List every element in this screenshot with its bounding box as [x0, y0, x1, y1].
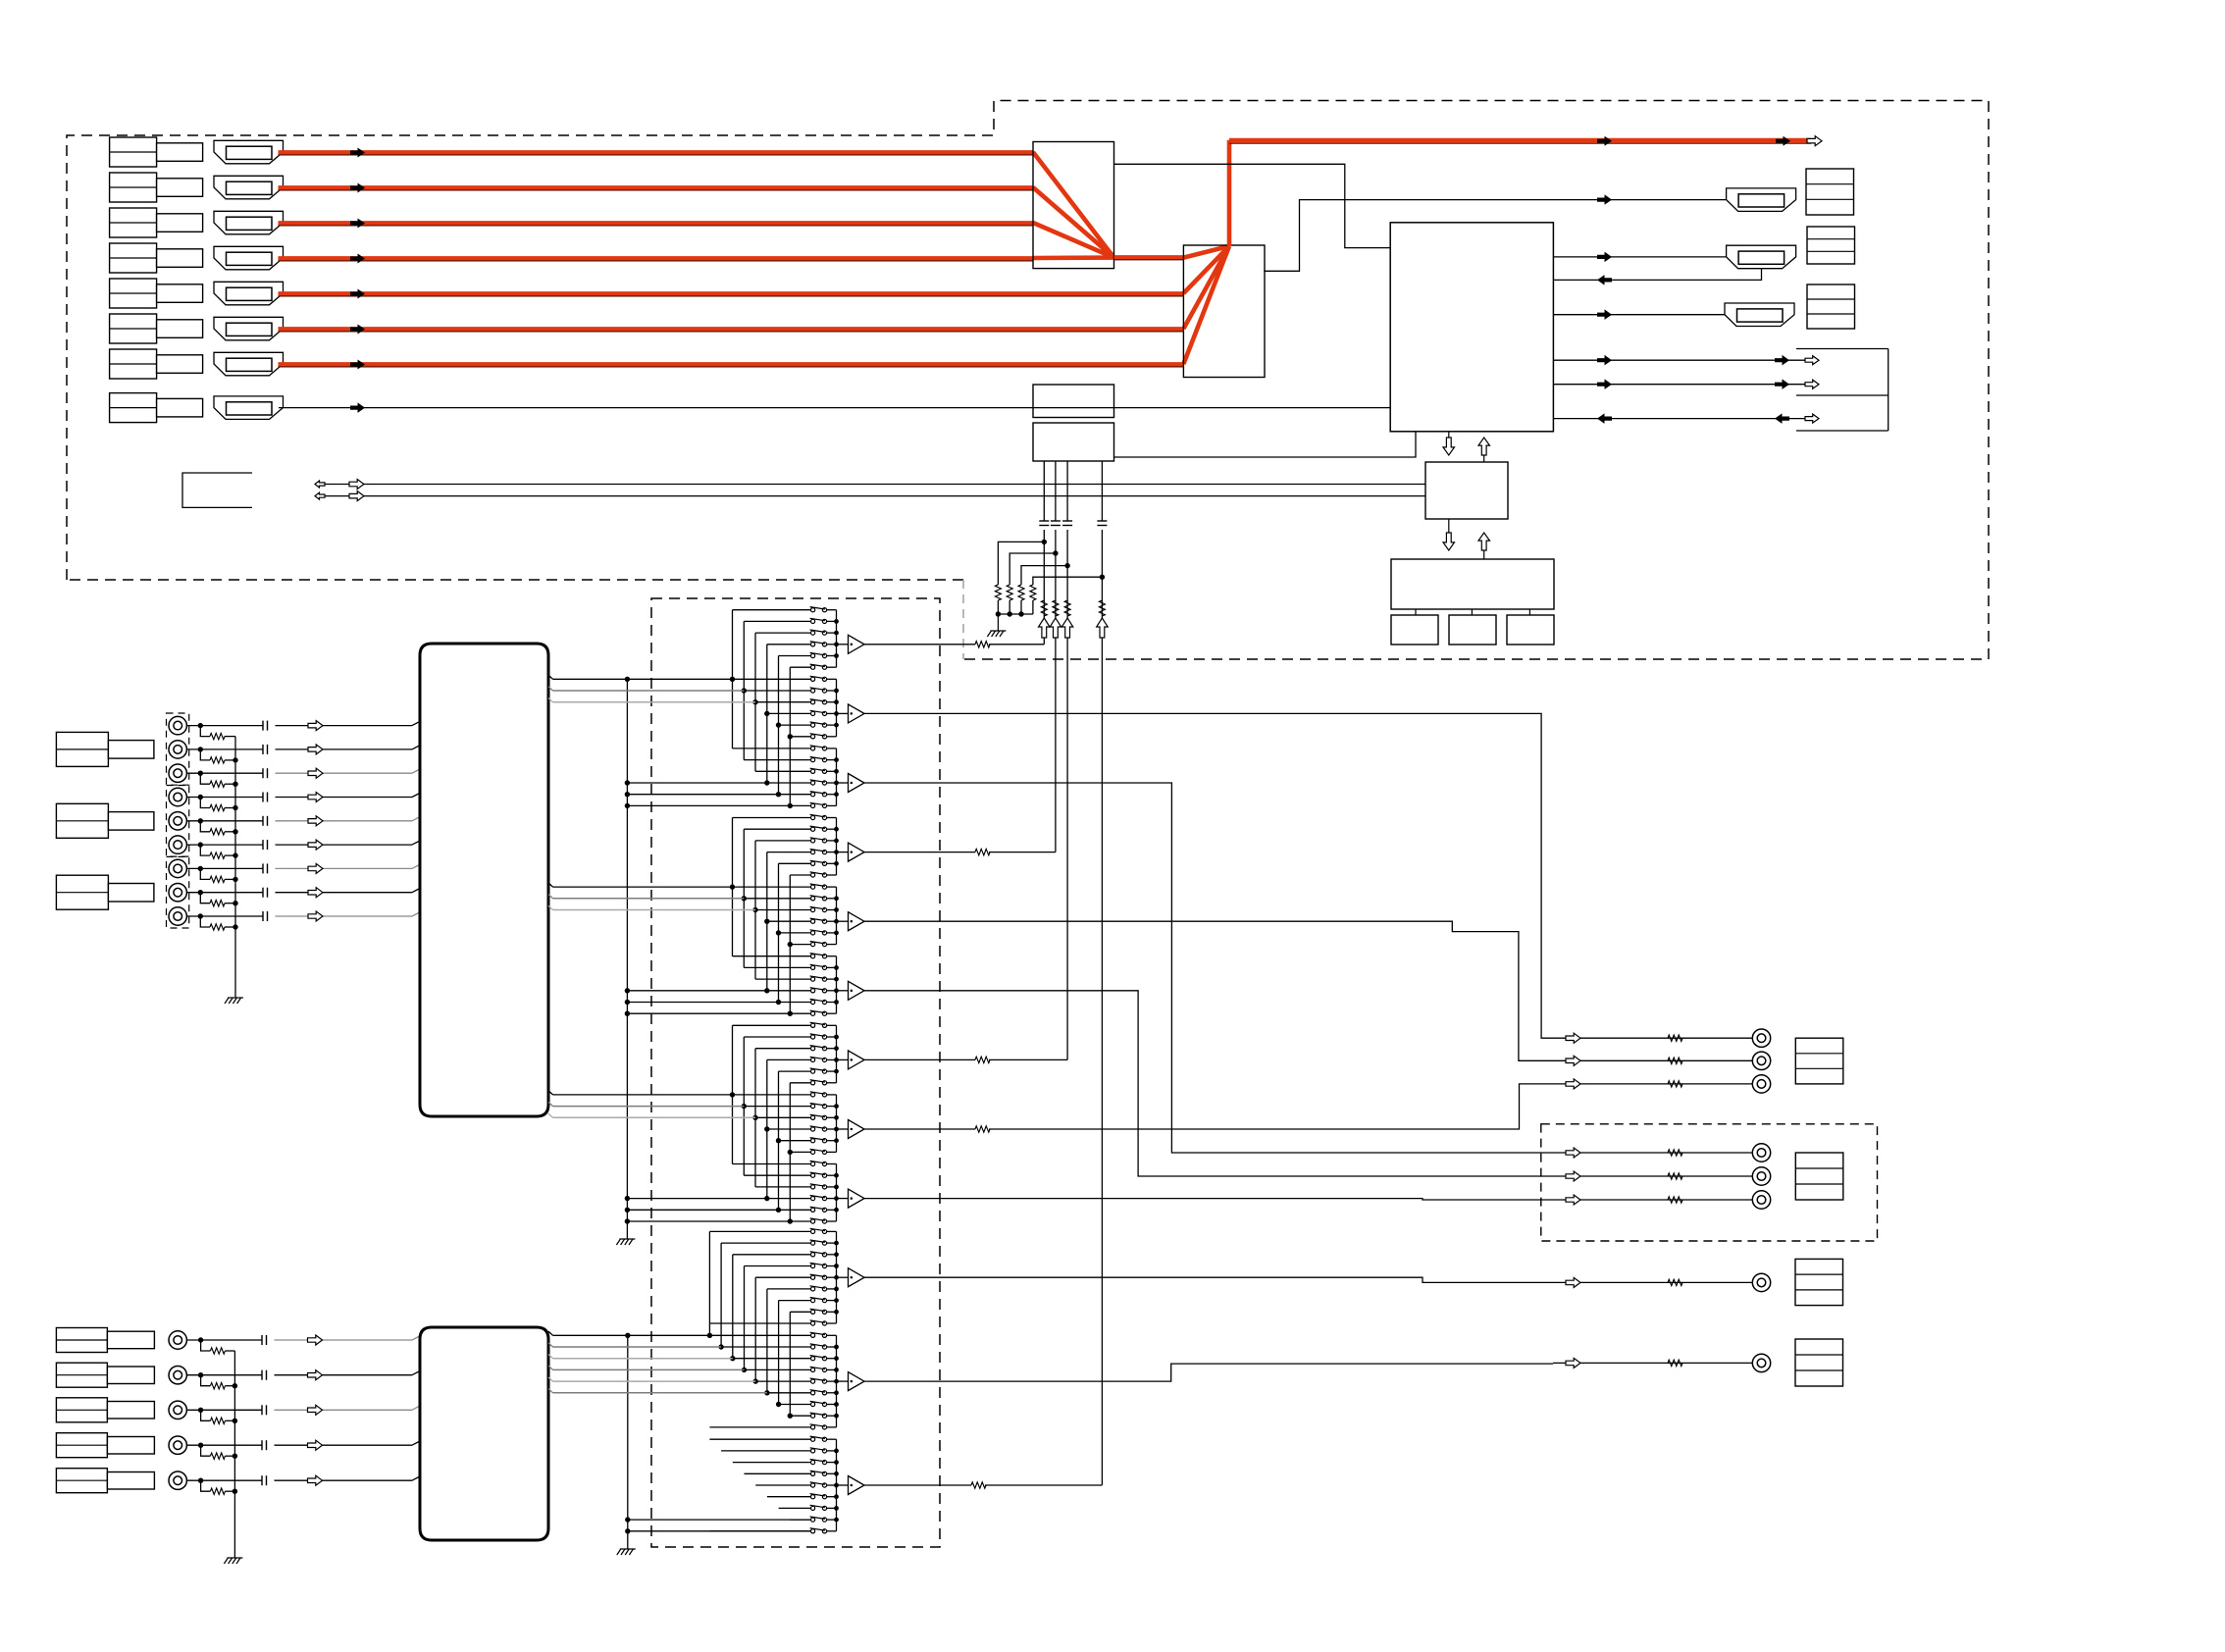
wire red main output riser — [1227, 140, 1232, 246]
capacitor C1 — [1039, 520, 1049, 522]
HDMI switch U1 — [1033, 142, 1114, 269]
wire b4s3 row9 out — [827, 1530, 837, 1532]
switch b1s3 row5 — [811, 793, 815, 797]
wire b2s1 row2 feed — [744, 828, 810, 830]
wire b2s3 row3 feed — [755, 978, 811, 980]
switch b2s3 row3 — [811, 977, 815, 981]
wire b4s2 row2 feed — [721, 1346, 810, 1348]
HDMI input 1 label box — [110, 137, 157, 167]
ground divider network — [997, 614, 999, 631]
switch b3s1 row5 — [811, 1069, 815, 1073]
wire matrix b3 column 1 — [732, 1025, 734, 1163]
wire b4s1 row6 out — [827, 1288, 837, 1290]
wire matrix b3 column 6 — [789, 1083, 791, 1221]
HDMI output 2 connector — [1727, 245, 1796, 269]
wire b4s3 row4 feed — [745, 1472, 811, 1474]
dashed enclosure HDMI input/output section — [67, 101, 1989, 660]
wire matrix left rail B — [627, 1335, 629, 1549]
wire b4s3 row4 out — [827, 1472, 837, 1474]
wire U3 out to HDMI out 2 — [1553, 256, 1726, 258]
wire digital audio line 4 — [1101, 461, 1103, 521]
switch b3s3 row3 — [811, 1185, 815, 1189]
wire b4s3 row5 out — [827, 1484, 837, 1486]
wire b2s3 row5 out — [827, 1002, 837, 1004]
wire b4s1 row9 feed — [709, 1322, 810, 1324]
switch b3s2 row2 — [811, 1105, 815, 1109]
HDMI input 7 connector — [214, 352, 284, 376]
op-amp buffer b1s1 — [837, 644, 849, 645]
wire b2s3 row4 out — [827, 990, 837, 992]
wire b3s3 collector — [836, 1164, 838, 1222]
switch b3s3 row5 — [811, 1208, 815, 1212]
wire b1s1 row1 feed — [733, 609, 811, 611]
HDMI input 3 label box — [110, 208, 157, 237]
wire divider foot 3 — [1020, 600, 1022, 614]
wire b3s2 row4 out — [827, 1128, 837, 1130]
switch b4s2 row1 — [811, 1333, 815, 1337]
wire bus out b1 line1 — [548, 675, 553, 679]
HDMI transmitter IC U3 — [1390, 223, 1553, 432]
switch b2s1 row6 — [811, 873, 815, 877]
wire b2s1 row5 out — [827, 862, 837, 864]
wire b3s1 row2 out — [827, 1036, 837, 1038]
resistor R7 series — [1064, 600, 1070, 616]
resistor R3 pulldown — [1018, 585, 1024, 600]
switch b1s1 row4 — [811, 643, 815, 646]
RCA input jack J3 — [169, 764, 186, 782]
wire matrix b2 column 4 — [766, 852, 768, 991]
wire RCA J14 shunt — [201, 1480, 211, 1491]
RCA output zone2 out R — [1752, 1167, 1770, 1185]
switch b2s3 row1 — [811, 955, 815, 958]
wire HDMI out 2 return — [1553, 269, 1761, 281]
switch b4s2 row9 — [811, 1425, 815, 1429]
open box front panel connector — [182, 473, 252, 507]
wire RCA J8 shunt — [200, 893, 210, 903]
switch b3s1 row4 — [811, 1058, 815, 1061]
wire b2s1 row6 out — [827, 874, 837, 876]
arrow RCA J14 — [308, 1475, 323, 1485]
wire lower bus out line2 — [548, 1343, 553, 1347]
switch b1s3 row3 — [811, 769, 815, 773]
wire b1s3 row4 feed — [767, 782, 811, 784]
HDMI switch U2 input slants (red) — [1183, 246, 1229, 258]
wire b3s2 collector — [836, 1095, 838, 1153]
wire matrix b1 column 1 — [732, 610, 734, 749]
wire b4s2 row4 feed — [745, 1368, 811, 1370]
main out label box — [1795, 1038, 1843, 1084]
wire b1s2 row4 feed — [767, 712, 811, 714]
wire aux ground rail — [233, 1351, 235, 1558]
wire bus out b3 line2 — [548, 1102, 553, 1106]
wire U3 aux in — [1553, 418, 1805, 420]
wire b3s2 row1 feed — [733, 1094, 811, 1096]
arrow RCA J5 — [308, 816, 323, 826]
arrow digital line 1 — [1039, 618, 1051, 638]
wire b4s3 row8 out — [827, 1519, 837, 1521]
wire HDMI input 3 TMDS (red) — [279, 221, 1034, 226]
wire lower bus out line4 — [548, 1366, 553, 1369]
switch b4s3 row2 — [811, 1449, 815, 1453]
wire b3s1 collector — [836, 1025, 838, 1083]
switch b3s2 row5 — [811, 1139, 815, 1143]
wire b3s2 row2 out — [827, 1106, 837, 1108]
wire b2s3 row1 feed — [733, 955, 811, 957]
op-amp buffer b3s1 — [837, 1058, 849, 1060]
HDMI switch U2 — [1183, 245, 1265, 378]
wire b2s1 row1 feed — [733, 817, 811, 819]
aux input 2 label box — [56, 1363, 107, 1387]
grey dashed link — [962, 580, 964, 659]
wire b4s2 row7 out — [827, 1404, 837, 1406]
arrow RCA J8 — [308, 888, 323, 898]
wire box B to U3 — [1114, 432, 1417, 457]
wire tri12 to digital line4 — [864, 1484, 971, 1486]
HDMI output 3 connector — [1725, 303, 1794, 327]
wire b1s2 row3 feed — [755, 701, 811, 703]
input selector bus upper — [420, 644, 548, 1116]
wire matrix b4 column 6 — [766, 1289, 768, 1393]
HDMI input 8 connector — [214, 396, 284, 420]
RCA aux jack J11 — [169, 1367, 186, 1384]
wire b4s1 row1 feed — [709, 1230, 810, 1232]
wire b1s3 row6 feed — [790, 804, 810, 806]
HDMI input 4 connector — [214, 246, 284, 269]
wire rail A branch b2 r5 — [627, 1002, 778, 1004]
wire tri6 to zone2-2 — [864, 991, 1553, 1176]
box B SPDIF interface — [1033, 423, 1114, 461]
dashed box RCA group 1 — [167, 713, 189, 785]
op-amp buffer b1s2 — [837, 712, 849, 714]
wire matrix b1 column 4 — [766, 645, 768, 783]
wire tri7 to digital line3 — [864, 1058, 975, 1060]
switch b2s1 row4 — [811, 851, 815, 854]
wire b4s2 row9 out — [827, 1426, 837, 1428]
wire b2s1 row3 feed — [755, 840, 811, 842]
wire RCA J12 shunt — [201, 1410, 211, 1420]
wire rail A branch b1 r5 — [627, 794, 778, 796]
switch b2s1 row5 — [811, 861, 815, 865]
wire divider foot 1 — [997, 600, 999, 614]
wire matrix b3 column 3 — [754, 1049, 756, 1187]
wire b4s1 row7 out — [827, 1300, 837, 1302]
wire b3s2 row2 feed — [744, 1106, 810, 1108]
switch b4s3 row3 — [811, 1461, 815, 1465]
HDMI switch U1 input slants (red) — [1033, 152, 1114, 258]
RCA output main out L — [1752, 1029, 1770, 1047]
wire b2s2 row1 feed — [733, 886, 811, 888]
switch b4s2 row3 — [811, 1357, 815, 1361]
arrow RCA J1 — [308, 721, 323, 731]
wire RCA J1 shunt — [200, 726, 210, 737]
wire main out R — [1553, 1059, 1752, 1061]
wire b1s3 row5 out — [827, 794, 837, 796]
wire divider branch 4 — [1033, 577, 1103, 585]
wire b3s1 row3 out — [827, 1048, 837, 1050]
wire rail A branch b1 r6 — [627, 804, 790, 806]
switch b4s3 row1 — [811, 1437, 815, 1441]
wire rail A branch b3 r4 — [627, 1198, 766, 1200]
wire tri9 to zone2-3 — [864, 1199, 1553, 1200]
wire b4s1 row6 feed — [767, 1288, 811, 1290]
wire b2s2 row5 feed — [779, 932, 811, 934]
switch b2s3 row6 — [811, 1011, 815, 1015]
wire analog ground rail — [234, 737, 236, 998]
RCA input jack J8 — [169, 884, 186, 902]
wire b4s1 row7 feed — [779, 1300, 811, 1302]
arrow RCA J6 — [308, 840, 323, 850]
wire b3s3 row1 feed — [733, 1163, 811, 1165]
HDMI input 7 label box — [110, 349, 157, 379]
wire bus out b2 line1 — [548, 883, 553, 887]
RCA aux jack J10 — [169, 1331, 186, 1349]
switch b4s1 row5 — [811, 1275, 815, 1279]
wire b3s1 row1 feed — [733, 1024, 811, 1026]
switch b1s3 row6 — [811, 803, 815, 807]
wire b3s1 row6 out — [827, 1082, 837, 1084]
switch b2s2 row5 — [811, 931, 815, 935]
wire U3 aux out 2 — [1553, 384, 1805, 386]
wire b1s1 row4 feed — [767, 644, 811, 645]
wire b2s3 row1 out — [827, 955, 837, 957]
ground analog rail — [225, 998, 229, 1004]
wire b2s1 row5 feed — [779, 862, 811, 864]
memory stub 3 — [1528, 609, 1530, 615]
switch b2s2 row2 — [811, 897, 815, 901]
wire b1s1 row5 out — [827, 655, 837, 657]
dashed box audio switch matrix — [651, 598, 940, 1547]
wire b1s2 row5 out — [827, 724, 837, 726]
wire b3s3 row5 feed — [779, 1209, 811, 1211]
wire divider foot 2 — [1009, 600, 1010, 614]
wire tri5 to out2 — [864, 921, 1553, 1060]
op-amp buffer b2s3 — [837, 990, 849, 992]
switch b1s1 row6 — [811, 665, 815, 669]
wire RCA J3 line — [186, 772, 263, 774]
HDMI output 2 label box — [1807, 227, 1855, 264]
wire b4s1 row2 feed — [721, 1242, 810, 1244]
wire b4s1 row3 feed — [733, 1254, 811, 1256]
wire U3 out to HDMI out 3 — [1553, 314, 1725, 316]
wire b1s1 row4 out — [827, 644, 837, 645]
wire b1s1 row3 feed — [755, 632, 811, 634]
wire b3s3 row6 feed — [790, 1220, 810, 1222]
switch b2s3 row2 — [811, 965, 815, 969]
wire b4s1 row4 feed — [745, 1265, 811, 1267]
op-amp buffer b4s1 — [837, 1276, 849, 1278]
wire RCA J4 line — [186, 797, 263, 799]
wire RCA J6 shunt — [200, 845, 210, 855]
audio interface box U4 — [1425, 462, 1508, 519]
HDMI input 6 connector — [214, 317, 284, 340]
wire b1s1 row1 out — [827, 609, 837, 611]
wire b1s3 collector — [836, 749, 838, 806]
wire tri2 to out1 — [864, 713, 1553, 1038]
switch b4s1 row3 — [811, 1253, 815, 1257]
wire lower bus out line5 — [548, 1377, 553, 1381]
wire matrix b3 column 4 — [766, 1059, 768, 1198]
wire b4s2 row7 feed — [779, 1404, 811, 1406]
switch b3s1 row6 — [811, 1081, 815, 1085]
wire HDMI input 4 TMDS (red) — [279, 256, 1034, 261]
switch b4s2 row2 — [811, 1345, 815, 1349]
wire b3s3 row3 feed — [755, 1186, 811, 1188]
switch b4s3 row9 — [811, 1529, 815, 1533]
wire b4s1 row8 out — [827, 1311, 837, 1313]
wire SPDIF bus B — [315, 495, 1425, 497]
wire main out L — [1553, 1037, 1752, 1039]
wire rail A branch b3 r6 — [627, 1220, 790, 1222]
switch b4s1 row1 — [811, 1229, 815, 1233]
RCA output single out B — [1752, 1354, 1770, 1371]
switch b3s3 row1 — [811, 1162, 815, 1165]
wire b4s2 row8 feed — [790, 1415, 810, 1417]
wire RCA J7 line — [186, 867, 263, 869]
wire b1s3 row3 out — [827, 770, 837, 772]
wire tri11 to single out B — [864, 1364, 1553, 1381]
RCA input jack J2 — [169, 741, 186, 758]
wire RCA J2 shunt — [200, 749, 210, 760]
memory stub 2 — [1471, 609, 1473, 615]
wire b4s2 row8 out — [827, 1415, 837, 1417]
wire divider foot 4 — [1032, 600, 1034, 614]
wire b2s1 row4 out — [827, 852, 837, 853]
switch b2s1 row3 — [811, 839, 815, 843]
wire b1s2 row4 out — [827, 712, 837, 714]
RCA aux jack J13 — [169, 1436, 186, 1454]
resistor R5 series — [1041, 600, 1047, 616]
op-amp buffer b4s3 — [837, 1484, 849, 1486]
wire b4s1 row5 out — [827, 1276, 837, 1278]
wire b4s3 row1 out — [827, 1438, 837, 1440]
wire single out A — [1553, 1281, 1752, 1283]
RCA input jack J6 — [169, 836, 186, 853]
wire RCA J8 line — [186, 892, 263, 894]
arrow RCA J13 — [308, 1440, 323, 1450]
wire zone2 out L — [1553, 1152, 1752, 1154]
wire lower bus out line3 — [548, 1355, 553, 1359]
HDMI input 1 connector — [214, 140, 284, 164]
wire HDMI input 8 to switch IC — [279, 407, 1390, 409]
resistor R1 pulldown — [995, 585, 1001, 600]
wire matrix b3 column 2 — [743, 1037, 745, 1175]
switch b1s2 row4 — [811, 711, 815, 715]
resistor R4 pulldown — [1030, 585, 1036, 600]
RCA output single out A — [1752, 1273, 1770, 1291]
wire RCA J7 shunt — [200, 868, 210, 879]
wire b4s2 collector — [836, 1335, 838, 1427]
box A repeater — [1033, 385, 1114, 418]
resistor R8 series — [1099, 600, 1105, 616]
wire b3s2 row6 feed — [790, 1151, 810, 1153]
arrow digital line 4 — [1097, 618, 1109, 638]
wire b4s1 row4 out — [827, 1265, 837, 1267]
wire b2s2 row3 out — [827, 909, 837, 911]
wire b1s2 row6 out — [827, 736, 837, 738]
wire b4s1 row1 out — [827, 1230, 837, 1232]
wire matrix b2 column 6 — [789, 875, 791, 1013]
RCA input jack J1 — [169, 716, 186, 734]
bracket external link connector — [1796, 348, 1889, 350]
input selector bus lower — [420, 1327, 548, 1540]
HDMI input 8 label box — [110, 393, 157, 423]
op-amp buffer b2s2 — [837, 920, 849, 922]
wire b4s3 row7 feed — [779, 1507, 811, 1509]
wire b2s3 row6 out — [827, 1012, 837, 1014]
bus arrows U4-DSP — [1443, 533, 1455, 550]
wire b4s2 row3 out — [827, 1358, 837, 1360]
wire divider branch 1 — [998, 542, 1044, 585]
switch b4s3 row7 — [811, 1506, 815, 1510]
switch b1s1 row1 — [811, 608, 815, 612]
wire b3s3 row4 feed — [767, 1198, 811, 1200]
wire matrix b4 column 1 — [708, 1231, 710, 1335]
wire rail A branch b1 r4 — [627, 782, 766, 784]
wire b3s1 row4 feed — [767, 1058, 811, 1060]
wire b4s1 row3 out — [827, 1254, 837, 1256]
wire b2s2 row6 out — [827, 944, 837, 946]
switch b3s1 row3 — [811, 1047, 815, 1051]
wire b2s1 row1 out — [827, 817, 837, 819]
wire matrix b4 column 3 — [732, 1255, 734, 1359]
switch b4s2 row7 — [811, 1402, 815, 1406]
wire b1s3 row1 feed — [733, 748, 811, 749]
wire b1s2 row6 feed — [790, 736, 810, 738]
aux input 5 label box — [56, 1469, 107, 1493]
wire b1s3 row5 feed — [779, 794, 811, 796]
wire b2s3 row2 feed — [744, 966, 810, 968]
resistor R2 pulldown — [1007, 585, 1012, 600]
wire bus out b3 line1 — [548, 1091, 553, 1095]
HDMI input 6 label box — [110, 314, 157, 343]
wire RCA J1 line — [186, 725, 263, 727]
arrow RCA J10 — [308, 1335, 323, 1345]
wire U1 black output A — [1114, 164, 1391, 247]
wire RCA J13 shunt — [201, 1445, 211, 1456]
aux input 4 label box — [56, 1433, 107, 1458]
switch b4s2 row6 — [811, 1391, 815, 1395]
wire b3s3 row5 out — [827, 1209, 837, 1211]
wire b3s3 row6 out — [827, 1220, 837, 1222]
wire RCA J11 line — [186, 1374, 262, 1376]
wire matrix left rail A — [626, 679, 628, 1239]
memory box 2 — [1449, 615, 1496, 645]
wire bus out b3 line3 — [548, 1113, 553, 1117]
wire b1s2 row3 out — [827, 701, 837, 703]
wire b1s2 collector — [836, 679, 838, 737]
wire lower bus out line1 — [548, 1331, 553, 1335]
switch b3s2 row4 — [811, 1127, 815, 1131]
wire b4s2 row6 out — [827, 1392, 837, 1394]
wire b4s1 row5 feed — [755, 1276, 810, 1278]
capacitor C4 — [1097, 520, 1107, 522]
wire b4s3 row9 feed — [709, 1530, 810, 1532]
wire main out C — [1553, 1083, 1752, 1085]
zone2 label box — [1795, 1153, 1843, 1200]
wire b2s3 row5 feed — [779, 1002, 811, 1004]
ground rail A — [616, 1239, 620, 1245]
wire lower bus out line6 — [548, 1389, 553, 1393]
RCA input jack J7 — [169, 859, 186, 877]
wire b3s1 row2 feed — [744, 1036, 810, 1038]
wire matrix b2 column 1 — [732, 818, 734, 956]
switch b2s3 row4 — [811, 989, 815, 993]
wire bus out b2 line3 — [548, 905, 553, 909]
switch b4s3 row6 — [811, 1495, 815, 1499]
wire matrix b1 column 6 — [789, 667, 791, 805]
switch b1s1 row3 — [811, 631, 815, 635]
RCA output main out C — [1752, 1075, 1770, 1093]
